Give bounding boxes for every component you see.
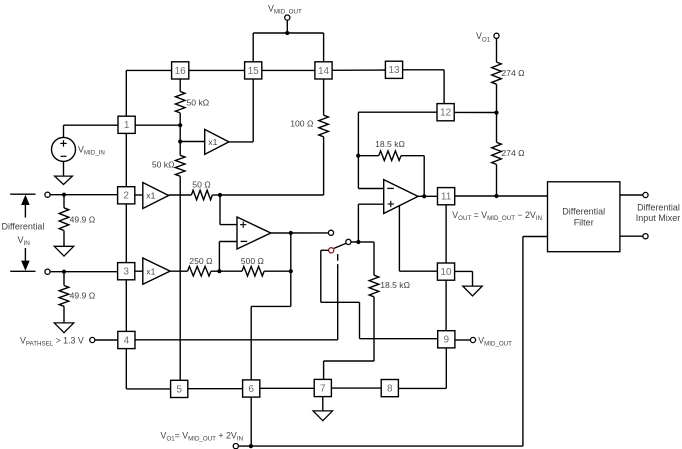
terminal V_MID_OUT top <box>285 15 290 20</box>
switch contact B (red) <box>329 248 334 253</box>
svg-text:Differential: Differential <box>637 203 680 213</box>
pin box 9 <box>438 331 455 348</box>
wire buffer1 output to box15 <box>229 79 253 142</box>
wire input bar bottom <box>10 270 35 272</box>
pin box 3 <box>118 263 135 280</box>
arrow differential span <box>21 195 30 271</box>
label VOUT equation <box>452 210 542 222</box>
label V_MID_IN <box>78 144 105 156</box>
label 50 kohm (lower) <box>152 160 175 170</box>
terminal V_O1 top <box>494 33 499 38</box>
svg-text:49.9 Ω: 49.9 Ω <box>70 291 96 301</box>
svg-text:6: 6 <box>248 384 254 395</box>
terminal input+ <box>45 192 50 197</box>
wire 18.5k to box7 top <box>324 361 374 379</box>
svg-text:4: 4 <box>124 335 130 346</box>
svg-text:Filter: Filter <box>574 217 594 227</box>
wire opamp3 output to box11 <box>418 195 438 197</box>
node 250-500 junction <box>217 269 221 273</box>
node 274 mid junction <box>494 111 498 115</box>
wire V_PATHSEL to box4 <box>95 339 118 341</box>
svg-text:16: 16 <box>175 66 187 77</box>
label 18.5 kohm (upper) <box>375 139 405 149</box>
ground (box7) <box>313 411 332 421</box>
resistor 50 kohm (upper) <box>175 79 185 125</box>
svg-text:50 kΩ: 50 kΩ <box>187 98 210 108</box>
wire box11 to filter <box>455 195 548 197</box>
label 274 ohm (lower) <box>501 148 525 158</box>
wire box10-box9 <box>445 280 447 331</box>
svg-text:9: 9 <box>444 335 450 346</box>
resistor 250 ohm <box>170 266 219 276</box>
svg-text:18.5 kΩ: 18.5 kΩ <box>380 280 410 290</box>
resistor 49.9 ohm (top) <box>59 195 69 247</box>
wire switch node to 18.5k <box>358 242 374 275</box>
svg-text:250 Ω: 250 Ω <box>189 256 213 266</box>
wire opamp2 +input <box>220 195 237 225</box>
label 500 ohm <box>241 256 265 266</box>
resistor 100 ohm <box>319 79 329 195</box>
node feedback junction <box>356 154 360 158</box>
label Differential VIN <box>2 222 45 248</box>
resistor 274 ohm (lower) <box>492 113 502 196</box>
wire box4 to switch control <box>135 271 338 340</box>
ground (V_MID_IN source) <box>55 176 73 184</box>
wire box16-box15 <box>189 69 245 71</box>
label 250 ohm <box>189 256 213 266</box>
wire source to ground <box>63 161 65 176</box>
svg-text:18.5 kΩ: 18.5 kΩ <box>375 139 405 149</box>
wire box13-box12 <box>403 70 445 104</box>
wire 500 node to box6 <box>251 271 291 380</box>
wire box14-box13 <box>332 69 385 71</box>
resistor 50 ohm <box>169 190 220 200</box>
wire box2-box3 <box>125 204 127 263</box>
wire red contact path <box>321 250 438 338</box>
pin box 15 <box>245 62 262 79</box>
svg-text:13: 13 <box>388 65 400 76</box>
wire 50ohm node to 100ohm column <box>220 194 324 196</box>
terminal input- <box>45 269 50 274</box>
node opamp3 output junction <box>422 194 426 198</box>
node top-rail junction <box>285 31 289 35</box>
resistor 18.5 kohm (lower) <box>369 275 379 361</box>
pin box 16 <box>172 62 189 79</box>
wire bottom rail <box>238 237 547 447</box>
label V_PATHSEL <box>20 335 84 347</box>
wire filter output top <box>620 194 643 196</box>
node box1 junction <box>178 123 182 127</box>
svg-text:50 kΩ: 50 kΩ <box>152 160 175 170</box>
wire feedback to output <box>423 156 425 197</box>
node vout junction <box>494 194 498 198</box>
wire box7-box8 <box>331 387 381 389</box>
svg-text:2: 2 <box>123 191 129 202</box>
switch contact A (from op-amp) <box>328 230 333 235</box>
ground (49.9 top) <box>54 246 73 256</box>
svg-text:11: 11 <box>441 192 452 203</box>
label 49.9 ohm (top) <box>70 215 96 225</box>
wire opamp2 -input <box>219 242 237 272</box>
wire 50k node link <box>179 125 181 141</box>
wire box6 bottom <box>250 397 252 446</box>
op-amp U3 buffer x1 <box>143 258 170 284</box>
svg-text:274 Ω: 274 Ω <box>501 68 525 78</box>
svg-text:10: 10 <box>440 267 452 278</box>
wire input+ to box2 <box>50 194 118 196</box>
wire input bar top <box>10 193 35 195</box>
wire opamp2 output <box>271 232 329 234</box>
label 50 ohm <box>192 179 211 189</box>
node 500ohm output junction <box>289 269 293 273</box>
node bottom junction <box>249 444 253 448</box>
wire buffer1 input <box>180 141 205 143</box>
svg-text:x1: x1 <box>146 266 155 276</box>
node switch common junction <box>356 240 360 244</box>
wire box10 to ground <box>455 271 473 286</box>
pin box 13 <box>385 61 402 78</box>
svg-text:8: 8 <box>387 384 393 395</box>
resistor 500 ohm <box>219 266 290 276</box>
wire box1-box2 <box>125 133 127 186</box>
block Differential Filter <box>548 182 620 252</box>
resistor 49.9 ohm (bottom) <box>59 272 69 323</box>
wire opamp3 +input <box>358 204 383 242</box>
pin box 10 <box>437 263 454 280</box>
source V_MID_IN <box>52 137 76 161</box>
node 50ohm output junction <box>218 193 222 197</box>
terminal V_O1 bottom <box>233 444 238 449</box>
wire feedback 500 ohm <box>290 233 292 271</box>
svg-text:100 Ω: 100 Ω <box>290 119 314 129</box>
wire box2 to buffer2 <box>135 194 143 196</box>
wire box12 to 274 node <box>454 111 496 113</box>
svg-text:7: 7 <box>320 383 326 394</box>
pin box 5 <box>171 380 188 397</box>
svg-text:x1: x1 <box>208 137 217 147</box>
wire box12 left to -node <box>358 111 437 113</box>
svg-text:Differential: Differential <box>2 222 45 232</box>
label V_O1 equation <box>161 431 243 443</box>
pin box 8 <box>381 380 398 397</box>
svg-text:x1: x1 <box>146 191 155 201</box>
wire box3-box4 <box>125 280 127 332</box>
wire switch common to node <box>351 241 358 243</box>
pin box 6 <box>243 380 260 397</box>
svg-text:Input Mixer: Input Mixer <box>636 213 681 223</box>
pin box 7 <box>314 379 331 396</box>
wire box15-box14 <box>262 69 315 71</box>
wire box9 to VMID_OUT terminal <box>455 339 470 341</box>
wire box7 to ground <box>322 397 324 411</box>
svg-text:12: 12 <box>440 108 452 119</box>
svg-text:3: 3 <box>123 267 129 278</box>
resistor 18.5 kohm (upper) <box>358 151 424 161</box>
switch blade <box>334 243 346 248</box>
wire opamp3 -input <box>358 112 383 188</box>
label 49.9 ohm (bottom) <box>70 291 96 301</box>
wire box1 right to 50k node <box>135 124 180 126</box>
svg-text:49.9 Ω: 49.9 Ω <box>70 215 96 225</box>
ground (49.9 bottom) <box>54 323 73 333</box>
op-amp U2 buffer x1 <box>143 183 169 209</box>
terminal V_PATHSEL <box>90 337 95 342</box>
label V_MID_OUT (top) <box>268 4 302 16</box>
svg-text:5: 5 <box>176 384 182 395</box>
node input- junction <box>62 270 66 274</box>
terminal V_MID_OUT right <box>470 337 475 342</box>
wire box3 to buffer3 <box>135 270 143 272</box>
node input+ junction <box>62 193 66 197</box>
node buffer1 input junction <box>178 139 182 143</box>
wire box5-box6 <box>188 388 243 390</box>
pin box 11 <box>438 188 455 205</box>
wire box1 left to source <box>64 125 119 137</box>
wire box4 to box5 <box>126 349 170 389</box>
pin box 2 <box>118 187 135 204</box>
switch common contact <box>346 239 351 244</box>
wire box8 to box9 <box>398 348 446 389</box>
resistor 50 kohm (lower) <box>175 142 185 381</box>
op-amp U1 buffer x1 <box>205 129 229 154</box>
wire opamp3 vocm pin to box10 <box>399 206 437 271</box>
label 100 ohm <box>290 119 314 129</box>
op-amp U4 <box>237 217 271 249</box>
pin box 1 <box>118 116 135 133</box>
label V_O1 top <box>476 31 491 43</box>
terminal filter out bottom <box>643 234 648 239</box>
node opamp2 output junction <box>289 231 293 235</box>
pin box 4 <box>118 331 135 348</box>
svg-text:15: 15 <box>248 66 260 77</box>
label V_MID_OUT right <box>478 335 512 347</box>
svg-text:Differential: Differential <box>562 207 605 217</box>
wire box11-box10 <box>445 205 447 263</box>
ground (box10) <box>463 286 482 296</box>
svg-text:274 Ω: 274 Ω <box>501 148 525 158</box>
svg-text:500 Ω: 500 Ω <box>241 256 265 266</box>
label Differential Input Mixer <box>636 203 681 224</box>
wire filter output bottom <box>620 235 643 237</box>
terminal filter out top <box>643 192 648 197</box>
wire switch control dashed link <box>337 252 339 271</box>
pin box 12 <box>437 104 454 121</box>
svg-text:14: 14 <box>318 66 330 77</box>
wire top rail 15-14 <box>253 33 323 62</box>
wire box6-box7 <box>260 387 314 389</box>
label 50 kohm (upper) <box>187 98 210 108</box>
op-amp U5 <box>384 180 418 214</box>
wire input- to box3 <box>50 271 118 273</box>
wire box16 left to box1 top <box>126 70 171 116</box>
resistor 274 ohm (upper) <box>492 38 502 112</box>
wire top terminal stem <box>286 20 288 33</box>
svg-text:50 Ω: 50 Ω <box>192 179 211 189</box>
pin box 14 <box>315 62 332 79</box>
label 18.5 kohm (lower) <box>380 280 410 290</box>
svg-text:1: 1 <box>124 120 130 131</box>
label 274 ohm (upper) <box>501 68 525 78</box>
